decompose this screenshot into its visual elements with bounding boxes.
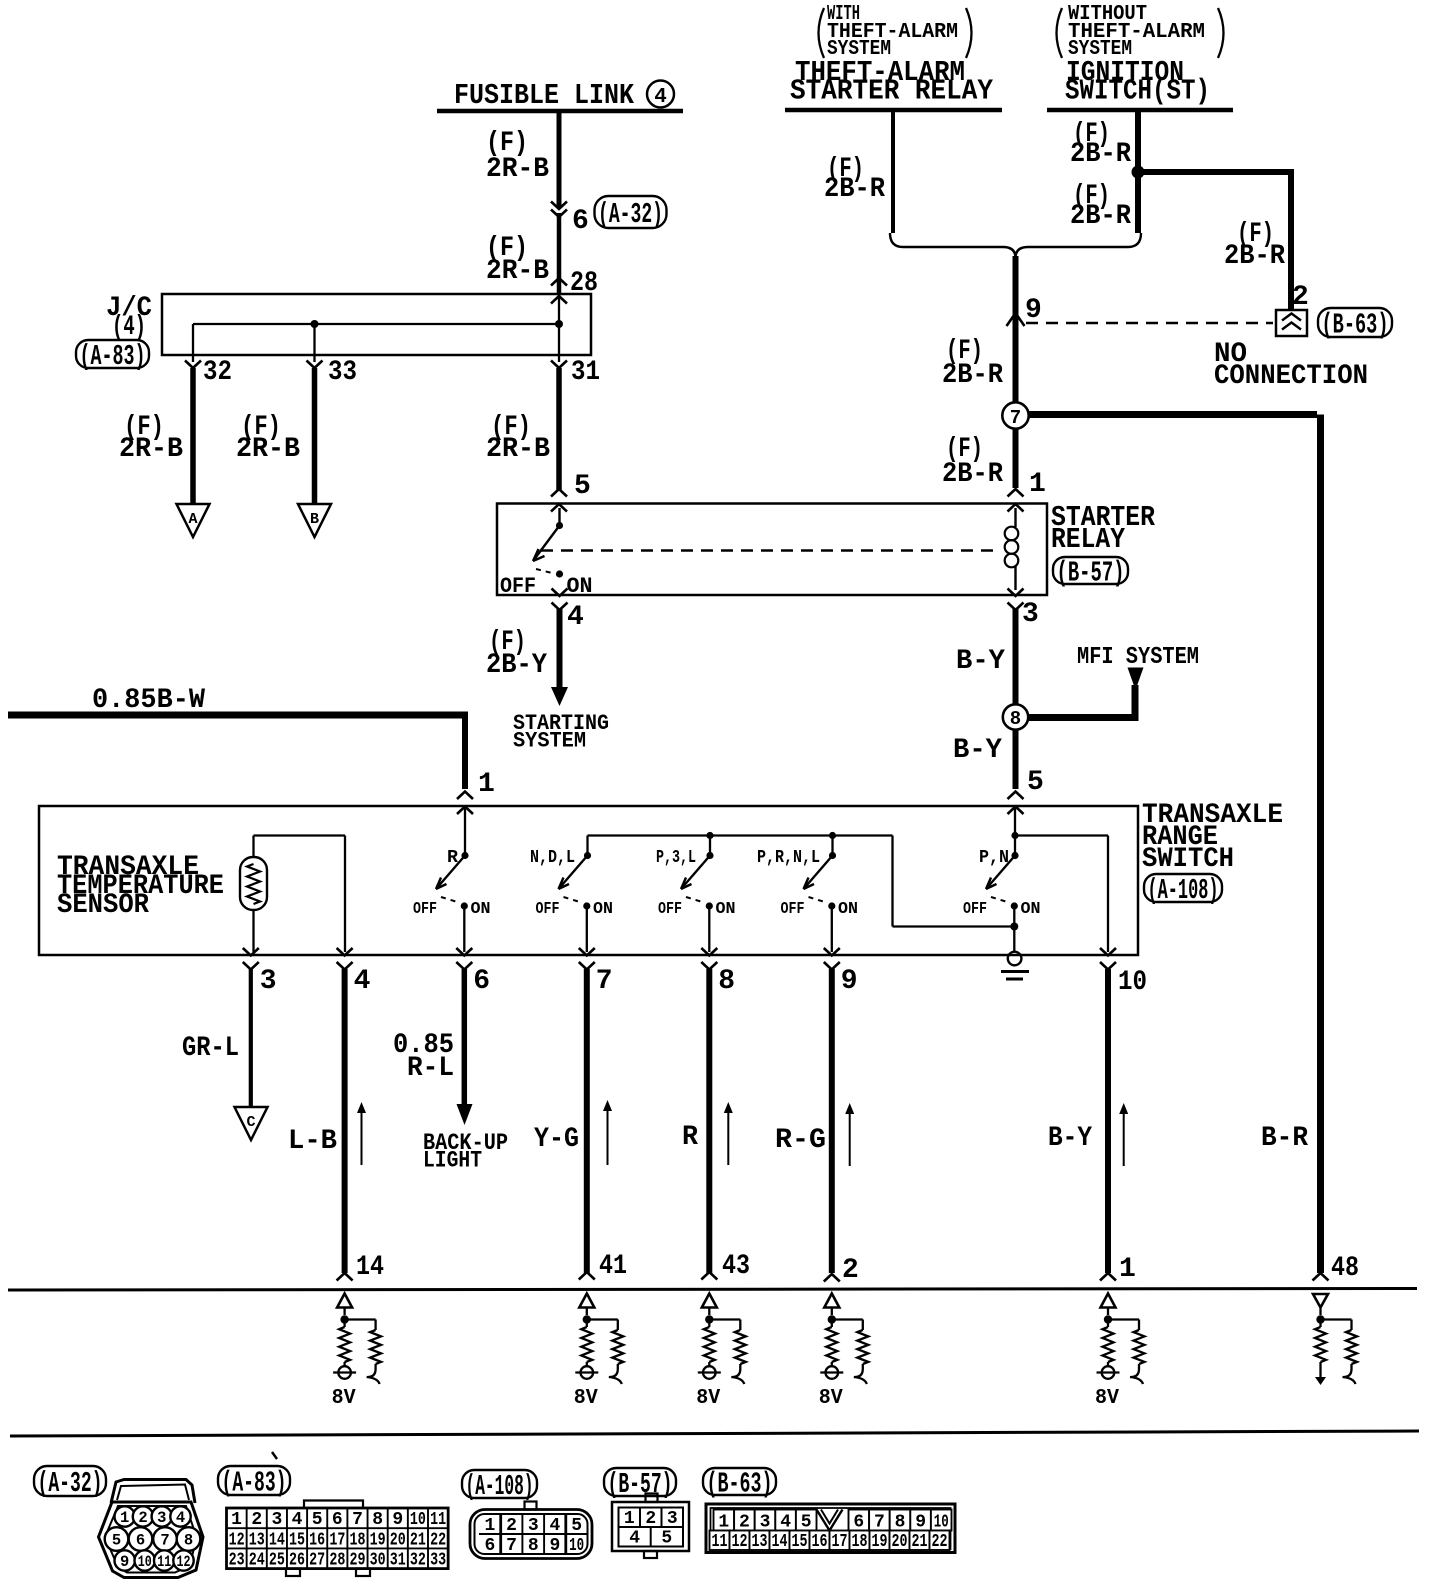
wire brace to splice 7	[1013, 256, 1019, 402]
svg-text:4: 4	[550, 1516, 561, 1536]
wire splice7 to relay pin1	[1013, 428, 1019, 488]
svg-text:13: 13	[249, 1530, 265, 1550]
svg-text:6: 6	[136, 1532, 145, 1550]
ignition switch title	[1065, 56, 1210, 108]
wire P3L-ON to pin8	[708, 906, 710, 952]
svg-text:12: 12	[229, 1530, 245, 1550]
flow arrow R	[724, 1102, 733, 1165]
svg-text:4: 4	[654, 86, 667, 109]
svg-text:6: 6	[572, 206, 589, 237]
wire PRNL-ON to pin9	[831, 906, 833, 952]
MFI system arrow wire	[1028, 668, 1144, 722]
svg-text:10: 10	[1118, 967, 1147, 998]
switch P,R,N,L	[757, 848, 858, 919]
svg-text:(B-63): (B-63)	[707, 1468, 773, 1501]
svg-text:B: B	[310, 511, 319, 528]
ECU pin 14 entry	[337, 1252, 384, 1283]
svg-text:3: 3	[260, 966, 277, 997]
TRS pin 6 chevrons	[456, 948, 472, 970]
svg-text:8V: 8V	[332, 1387, 356, 1410]
svg-text:21: 21	[410, 1530, 426, 1550]
connector A-32 drawing	[99, 1480, 204, 1578]
svg-text:9: 9	[120, 1553, 129, 1571]
flow arrow B-Y	[1119, 1103, 1128, 1166]
wire pin10 B-Y to ECU pin1	[1105, 969, 1111, 1273]
starter relay box B-57	[497, 504, 1047, 596]
svg-text:48: 48	[1331, 1253, 1359, 1284]
svg-text:2B-R: 2B-R	[942, 459, 1003, 490]
triangle terminal B	[298, 504, 331, 537]
svg-text:P,N: P,N	[979, 848, 1009, 868]
svg-text:30: 30	[370, 1551, 386, 1571]
svg-text:OFF: OFF	[963, 900, 987, 919]
ECU pin 43 entry	[701, 1251, 750, 1282]
svg-text:4: 4	[629, 1529, 640, 1549]
svg-text:17: 17	[329, 1530, 345, 1550]
relay coil	[1005, 508, 1019, 590]
svg-text:OFF: OFF	[536, 900, 560, 919]
relay switch	[533, 508, 563, 578]
svg-text:(A-108): (A-108)	[1148, 874, 1219, 907]
J/C junction dot 31	[555, 320, 563, 328]
svg-text:15: 15	[792, 1532, 808, 1552]
svg-text:CONNECTION: CONNECTION	[1214, 361, 1368, 392]
svg-text:R-L: R-L	[407, 1053, 454, 1084]
junction dot ignition	[1132, 166, 1145, 179]
wire pin4 L-B to ECU pin14	[342, 969, 348, 1273]
svg-text:11: 11	[430, 1510, 446, 1530]
svg-text:9: 9	[915, 1513, 926, 1533]
label (F) 2B-Y	[486, 627, 547, 681]
svg-text:8V: 8V	[574, 1387, 598, 1410]
bus junction dot PN top	[1011, 832, 1018, 839]
splice 7	[1002, 402, 1028, 429]
label (F) 2B-R above splice7	[942, 336, 1003, 391]
svg-text:19: 19	[370, 1530, 386, 1550]
ECU pin 2 entry	[824, 1255, 859, 1286]
svg-text:29: 29	[349, 1551, 365, 1571]
ECU boundary line	[8, 1289, 1417, 1291]
TRS pin 7 chevrons	[579, 948, 595, 970]
triangle terminal A	[177, 504, 210, 537]
svg-text:3: 3	[667, 1509, 678, 1529]
svg-text:ON: ON	[716, 900, 736, 919]
svg-text:6: 6	[853, 1513, 864, 1533]
svg-text:7: 7	[874, 1513, 885, 1533]
connector ref B-57 bottom	[604, 1468, 676, 1501]
relay pin4 chevrons	[552, 589, 568, 611]
svg-text:L-B: L-B	[288, 1126, 337, 1157]
svg-text:(A-32): (A-32)	[38, 1467, 103, 1500]
wire splice7 to B-R right side	[1028, 415, 1321, 1274]
svg-text:(A-83): (A-83)	[222, 1467, 287, 1500]
wire 0.85B-W	[8, 712, 465, 790]
label (F) 2B-R ignition lower	[1070, 181, 1131, 232]
ignition bus bar	[1047, 108, 1233, 113]
svg-text:Y-G: Y-G	[534, 1124, 579, 1155]
svg-text:24: 24	[249, 1551, 265, 1571]
svg-text:R-G: R-G	[775, 1125, 826, 1156]
svg-text:7: 7	[352, 1510, 363, 1530]
svg-text:20: 20	[390, 1530, 406, 1550]
svg-text:1: 1	[1029, 469, 1046, 500]
connector B-57 drawing	[612, 1494, 689, 1559]
bus junction dot P3L	[706, 832, 713, 839]
svg-text:3: 3	[760, 1513, 771, 1533]
svg-text:C: C	[246, 1114, 255, 1131]
svg-text:R: R	[682, 1122, 698, 1153]
svg-text:12: 12	[732, 1532, 748, 1552]
pin 9 chevron	[1007, 313, 1025, 326]
svg-text:5: 5	[571, 1516, 582, 1536]
svg-text:14: 14	[356, 1252, 384, 1283]
svg-text:12: 12	[177, 1553, 191, 1571]
svg-text:11: 11	[712, 1532, 728, 1552]
svg-text:26: 26	[289, 1551, 305, 1571]
ECU pin 1 entry	[1100, 1254, 1136, 1285]
wire pin3 GR-L	[249, 969, 253, 1107]
connector ref A-108	[1144, 874, 1222, 907]
TRS pin1 chevrons	[457, 792, 473, 815]
connector B-63 drawing	[706, 1504, 955, 1553]
pin 32 chevron	[185, 355, 201, 368]
svg-text:2: 2	[645, 1509, 656, 1529]
svg-text:4: 4	[176, 1509, 185, 1527]
svg-text:22: 22	[430, 1530, 446, 1550]
svg-text:3: 3	[528, 1516, 539, 1536]
svg-text:2R-B: 2R-B	[486, 154, 549, 185]
svg-text:6: 6	[484, 1536, 495, 1556]
svg-text:9: 9	[550, 1536, 561, 1556]
no-connection box B-63	[1276, 310, 1307, 336]
svg-text:7: 7	[596, 966, 613, 997]
brace joining wires	[890, 233, 1141, 258]
relay pin5 chevrons	[551, 489, 567, 512]
fusible link bus bar	[437, 109, 683, 114]
svg-text:8V: 8V	[1095, 1387, 1119, 1410]
svg-text:3: 3	[271, 1510, 282, 1530]
wire pin8 R to ECU pin43	[706, 969, 712, 1273]
svg-text:GR-L: GR-L	[182, 1033, 239, 1064]
svg-text:8: 8	[718, 966, 735, 997]
svg-text:2: 2	[506, 1516, 517, 1536]
wire theft-alarm relay down	[891, 110, 895, 233]
svg-text:(B-63): (B-63)	[1322, 309, 1389, 342]
label (F) 2B-R theft-alarm	[824, 154, 885, 205]
svg-text:9: 9	[841, 966, 858, 997]
svg-text:5: 5	[661, 1529, 672, 1549]
TRS pin 4 chevrons	[337, 948, 353, 970]
svg-text:5: 5	[574, 471, 591, 502]
svg-text:SYSTEM: SYSTEM	[513, 729, 586, 754]
note without theft-alarm system	[1057, 3, 1224, 61]
label (F) 2R-B pin31	[486, 412, 550, 465]
svg-text:RELAY: RELAY	[1051, 523, 1126, 556]
wire NDL-ON to pin7	[586, 906, 588, 952]
svg-text:9: 9	[1025, 295, 1042, 326]
svg-text:B-Y: B-Y	[956, 646, 1005, 677]
svg-text:(4): (4)	[112, 312, 146, 343]
svg-text:18: 18	[852, 1532, 868, 1552]
svg-text:4: 4	[354, 966, 371, 997]
svg-text:1: 1	[120, 1509, 129, 1527]
svg-text:P,3,L: P,3,L	[656, 848, 696, 868]
wire pin7 Y-G to ECU pin41	[584, 969, 590, 1273]
wire fusible link to A-32 pin 6	[557, 111, 562, 208]
svg-text:5: 5	[112, 1532, 121, 1550]
connector A-83 drawing	[227, 1501, 449, 1577]
svg-text:8: 8	[1010, 708, 1021, 730]
svg-text:7: 7	[160, 1532, 169, 1550]
wire pin31 to relay pin5	[556, 368, 562, 491]
svg-text:32: 32	[203, 357, 232, 388]
label J/C (4)	[106, 293, 152, 343]
J/C internal bus	[193, 294, 559, 355]
svg-text:(B-57): (B-57)	[1057, 557, 1125, 590]
label TRANSAXLE RANGE SWITCH	[1142, 800, 1283, 875]
svg-text:2: 2	[1292, 282, 1309, 313]
svg-text:27: 27	[309, 1551, 325, 1571]
svg-text:ON: ON	[1021, 900, 1041, 919]
svg-text:SWITCH: SWITCH	[1142, 844, 1234, 875]
svg-text:41: 41	[599, 1251, 627, 1282]
svg-text:2: 2	[251, 1510, 262, 1530]
svg-text:2B-Y: 2B-Y	[486, 650, 547, 681]
switch R	[413, 848, 491, 919]
svg-text:OFF: OFF	[500, 574, 536, 599]
svg-text:1: 1	[231, 1510, 242, 1530]
svg-text:(A-83): (A-83)	[80, 340, 146, 373]
ECU network pin41	[574, 1294, 624, 1411]
svg-text:8V: 8V	[696, 1387, 720, 1410]
svg-text:3: 3	[157, 1509, 166, 1527]
svg-text:8V: 8V	[819, 1387, 843, 1410]
svg-text:P,R,N,L: P,R,N,L	[757, 848, 820, 868]
svg-text:5: 5	[312, 1510, 323, 1530]
svg-text:22: 22	[932, 1532, 948, 1552]
label (F) 2R-B pin33	[236, 412, 300, 465]
flow arrow Y-G	[603, 1100, 612, 1165]
svg-text:2: 2	[842, 1255, 859, 1286]
svg-text:9: 9	[392, 1510, 403, 1530]
wire PN top branch to pin10	[1015, 836, 1108, 953]
pin 28 chevrons	[551, 278, 567, 304]
svg-text:10: 10	[138, 1553, 152, 1571]
svg-text:2B-R: 2B-R	[1070, 201, 1131, 232]
ECU pin 48 entry	[1313, 1253, 1360, 1284]
svg-text:1: 1	[624, 1509, 635, 1529]
svg-text:8: 8	[528, 1536, 539, 1556]
svg-text:2R-B: 2R-B	[486, 256, 549, 287]
svg-text:SWITCH(ST): SWITCH(ST)	[1065, 75, 1210, 108]
svg-text:16: 16	[812, 1532, 828, 1552]
svg-text:OFF: OFF	[658, 900, 682, 919]
wire pin32 to triangle A	[190, 368, 196, 504]
label (F) 2R-B fusible upper	[486, 128, 549, 185]
svg-text:LIGHT: LIGHT	[423, 1148, 482, 1174]
svg-text:2: 2	[138, 1509, 147, 1527]
connector ref B-63 bottom	[703, 1468, 776, 1501]
svg-text:ON: ON	[838, 900, 858, 919]
pin 31 chevron	[551, 355, 567, 368]
fusible link 4 title	[454, 79, 674, 112]
ECU network pin48	[1313, 1294, 1357, 1385]
svg-text:10: 10	[410, 1510, 426, 1530]
label TRANSAXLE TEMPERATURE SENSOR	[57, 852, 224, 921]
ground symbol	[1001, 952, 1029, 979]
svg-text:2R-B: 2R-B	[486, 434, 550, 465]
label (F) 2B-R ignition upper	[1070, 119, 1131, 170]
flow arrow R-G	[845, 1103, 854, 1166]
svg-text:(B-57): (B-57)	[608, 1468, 673, 1501]
svg-text:16: 16	[309, 1530, 325, 1550]
svg-text:4: 4	[292, 1510, 303, 1530]
ECU network pin2	[819, 1294, 869, 1411]
svg-text:25: 25	[269, 1551, 285, 1571]
svg-text:STARTER RELAY: STARTER RELAY	[790, 75, 994, 108]
label (F) 2B-R branch	[1224, 219, 1285, 272]
svg-text:B-Y: B-Y	[1048, 1123, 1092, 1154]
svg-text:N,D,L: N,D,L	[530, 848, 575, 868]
wire TRS pin1 to R switch	[464, 806, 466, 852]
wire pin6 R-L to back-up light	[457, 969, 473, 1125]
svg-text:FUSIBLE LINK: FUSIBLE LINK	[454, 79, 635, 112]
svg-text:B-R: B-R	[1261, 1123, 1308, 1154]
wire pin33 to triangle B	[312, 368, 318, 504]
relay pin1 chevrons	[1008, 489, 1024, 512]
flow arrow L-B	[357, 1102, 366, 1165]
starting system arrow	[551, 687, 568, 706]
label (F) 2B-R below splice7	[942, 434, 1003, 490]
svg-text:11: 11	[157, 1553, 171, 1571]
svg-text:8: 8	[372, 1510, 383, 1530]
J/C junction dot 33	[311, 320, 319, 328]
label STARTER RELAY	[1051, 501, 1156, 556]
connector ref A-83 bottom	[218, 1466, 290, 1500]
svg-text:19: 19	[872, 1532, 888, 1552]
ECU network pin43	[696, 1294, 746, 1411]
connector ref A-32 bottom	[34, 1466, 106, 1500]
svg-text:17: 17	[832, 1532, 848, 1552]
wire sensor to pin3	[252, 910, 254, 952]
relay dashed actuation line	[541, 549, 999, 552]
svg-text:2B-R: 2B-R	[824, 174, 885, 205]
label STARTING SYSTEM	[513, 711, 609, 754]
theft-alarm starter relay title	[790, 56, 994, 108]
wire R-ON to pin6	[463, 906, 465, 952]
svg-text:B-Y: B-Y	[953, 735, 1002, 766]
switch P,3,L	[656, 848, 736, 919]
ECU pin 41 entry	[579, 1251, 627, 1282]
svg-text:2B-R: 2B-R	[1070, 139, 1131, 170]
triangle terminal C	[235, 1107, 268, 1140]
ECU network pin14	[332, 1294, 382, 1411]
svg-text:A: A	[188, 511, 197, 528]
connector A-108 drawing	[470, 1502, 592, 1559]
wire relay pin3 to splice8	[1013, 609, 1019, 704]
TRS pin 3 chevrons	[243, 948, 259, 970]
svg-text:MFI SYSTEM: MFI SYSTEM	[1077, 644, 1199, 671]
connector ref A-108 bottom	[462, 1470, 537, 1503]
connector ref B-57	[1053, 557, 1128, 590]
note with theft-alarm system	[819, 3, 972, 61]
svg-text:23: 23	[229, 1551, 245, 1571]
bus junction dot PN bottom	[1010, 923, 1018, 931]
wire A-32 pin 6 to J/C pin 28	[557, 213, 562, 294]
connector ref A-83	[76, 340, 149, 373]
switch P,N	[963, 848, 1041, 919]
svg-text:31: 31	[571, 357, 600, 388]
svg-text:2R-B: 2R-B	[119, 434, 183, 465]
switch bus line	[588, 836, 1015, 927]
ECU network pin1	[1095, 1294, 1145, 1411]
TRS pin5 chevrons	[1008, 792, 1024, 815]
relay pin3 chevrons	[1008, 589, 1024, 611]
transaxle temperature sensor	[240, 857, 267, 910]
wire branch to no-connection	[1135, 169, 1291, 309]
svg-text:OFF: OFF	[781, 900, 805, 919]
svg-text:8: 8	[895, 1513, 906, 1533]
svg-text:31: 31	[390, 1551, 406, 1571]
svg-text:14: 14	[269, 1530, 285, 1550]
TRS pin 9 chevrons	[824, 948, 840, 970]
wire pin9 R-G to ECU pin2	[829, 969, 835, 1273]
svg-text:13: 13	[752, 1532, 768, 1552]
svg-text:6: 6	[332, 1510, 343, 1530]
svg-text:ON: ON	[567, 574, 593, 599]
svg-text:1: 1	[484, 1516, 495, 1536]
label (F) 2R-B fusible lower	[486, 233, 549, 287]
svg-text:1: 1	[1119, 1254, 1136, 1285]
svg-text:33: 33	[328, 357, 357, 388]
svg-text:2B-R: 2B-R	[1224, 241, 1285, 272]
junction box J/C(4) A-83	[162, 294, 591, 355]
label BACK-UP LIGHT	[423, 1130, 508, 1174]
svg-text:10: 10	[569, 1536, 584, 1556]
wire PN-ON to ground	[1013, 906, 1015, 951]
svg-text:OFF: OFF	[413, 900, 437, 919]
svg-text:28: 28	[329, 1551, 345, 1571]
svg-text:2R-B: 2R-B	[236, 434, 300, 465]
connector ref A-32	[595, 196, 667, 231]
svg-text:8: 8	[184, 1532, 193, 1550]
svg-text:2: 2	[739, 1513, 750, 1533]
svg-text:20: 20	[892, 1532, 908, 1552]
svg-text:43: 43	[722, 1251, 750, 1282]
label NO CONNECTION	[1214, 339, 1368, 392]
wire ignition switch down	[1135, 110, 1141, 233]
svg-text:(A-32): (A-32)	[598, 198, 663, 231]
label (F) 2R-B pin32	[119, 412, 183, 465]
splice 8	[1003, 704, 1028, 730]
svg-text:7: 7	[506, 1536, 517, 1556]
label 0.85 R-L	[393, 1030, 454, 1084]
svg-text:3: 3	[1022, 599, 1039, 630]
sensor wiring jog	[254, 836, 346, 953]
svg-text:5: 5	[801, 1513, 812, 1533]
svg-text:14: 14	[772, 1532, 788, 1552]
theft-alarm bus bar	[785, 108, 1002, 113]
svg-text:32: 32	[410, 1551, 426, 1571]
svg-text:4: 4	[780, 1513, 791, 1533]
svg-text:1: 1	[478, 769, 495, 800]
ECU bottom line	[10, 1431, 1419, 1436]
svg-text:1: 1	[718, 1513, 729, 1533]
switch N,D,L	[530, 848, 613, 919]
svg-text:0.85B-W: 0.85B-W	[92, 685, 205, 716]
svg-text:10: 10	[934, 1513, 949, 1533]
svg-text:21: 21	[912, 1532, 928, 1552]
